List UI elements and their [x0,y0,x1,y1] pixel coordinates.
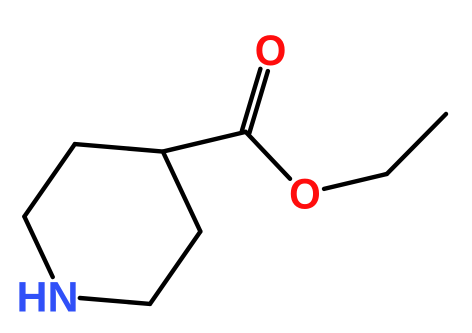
wire C4-C5 [75,144,163,151]
wire C7=O1 double bond line A [249,71,267,133]
wire N-C2 [80,298,150,304]
wire O2-C8 [324,174,387,189]
svg-text:O: O [255,27,287,75]
wire C6-N [24,217,52,277]
svg-text:HN: HN [16,273,78,321]
wire C3-C4 [163,152,201,232]
wire C4-C7 [163,132,246,152]
wire C2-C3 [150,231,200,303]
wire C7-O2 [246,132,290,179]
svg-text:O: O [289,171,321,219]
wire C8-C9 [387,114,446,174]
wire C7=O1 double bond line B [242,69,260,131]
wire C5-C6 [24,144,74,216]
